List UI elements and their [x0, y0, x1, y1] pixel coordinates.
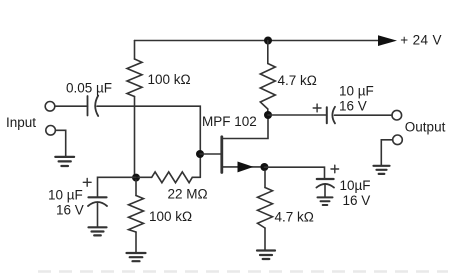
wire C3 to output terminal	[335, 114, 392, 116]
node gate dot	[196, 150, 204, 158]
wire R1 bottom lead down to node X (crosses input wire)	[134, 97, 136, 178]
capacitor C2 plus sign	[83, 178, 91, 186]
capacitor C3 plus sign	[313, 104, 321, 112]
capacitor C3 10uF straight plate	[326, 107, 328, 123]
output lower terminal circle	[393, 135, 403, 145]
wire C2 to ground	[97, 203, 99, 227]
resistor R1 100k zigzag	[127, 59, 142, 97]
ground C4	[318, 197, 333, 205]
resistor R1 100k top lead upper	[134, 41, 136, 60]
svg-text:10 µF: 10 µF	[339, 83, 374, 98]
capacitor C4 10uF curved plate	[316, 184, 334, 188]
svg-text:Input: Input	[6, 115, 36, 130]
capacitor C1 0.05uF left plate	[87, 96, 89, 116]
wire drain node to C3	[268, 114, 327, 116]
resistor R5 4.7k bottom lead upper	[264, 171, 266, 188]
svg-text:4.7 kΩ: 4.7 kΩ	[278, 73, 317, 88]
wire output lower terminal to ground	[381, 140, 392, 165]
svg-text:10µF: 10µF	[340, 178, 371, 193]
ground output	[374, 166, 390, 174]
node source dot	[260, 163, 268, 171]
transistor Q1 MPF102 channel bar	[220, 137, 223, 173]
node X junction dot	[132, 174, 140, 182]
+24V arrowhead	[378, 35, 397, 46]
resistor R3 22M zigzag	[152, 172, 193, 183]
svg-text:100 kΩ: 100 kΩ	[149, 209, 192, 224]
wire source node to C4	[264, 167, 324, 178]
ground input	[55, 157, 74, 166]
wire drain lead	[222, 115, 268, 139]
capacitor C1 0.05uF curved plate	[95, 96, 98, 117]
svg-text:+ 24 V: + 24 V	[400, 32, 442, 47]
svg-text:16 V: 16 V	[56, 203, 84, 218]
resistor R4 4.7k zigzag	[260, 64, 275, 110]
svg-text:4.7 kΩ: 4.7 kΩ	[275, 209, 314, 224]
output terminal circle	[392, 110, 402, 120]
ground C2	[89, 227, 107, 235]
node rail junction dot	[264, 37, 272, 45]
resistor R2 100k zigzag	[129, 196, 144, 233]
capacitor C4 10uF straight plate	[317, 178, 334, 180]
wire R5 to ground	[264, 228, 266, 250]
resistor R4 4.7k top lead upper	[267, 41, 269, 64]
svg-text:10 µF: 10 µF	[48, 187, 83, 202]
svg-text:100 kΩ: 100 kΩ	[148, 72, 191, 87]
svg-text:Output: Output	[405, 119, 446, 134]
capacitor C3 10uF curved plate	[332, 107, 335, 124]
resistor R5 4.7k zigzag	[258, 188, 273, 229]
input lower terminal circle	[46, 126, 56, 136]
wire C1 to gate feed corner	[97, 106, 200, 177]
wire node X to C2	[98, 177, 137, 197]
node drain dot	[264, 111, 272, 119]
transistor Q1 source arrow	[238, 162, 254, 173]
wire R2 to ground	[135, 232, 137, 252]
capacitor C4 plus sign	[331, 165, 339, 173]
capacitor C2 10uF straight plate	[89, 196, 107, 198]
resistor R2 100k bottom lead upper	[135, 180, 137, 196]
scan noise band at page bottom	[38, 270, 448, 273]
resistor R3 22M left lead	[138, 176, 152, 178]
wire top supply rail	[135, 40, 382, 42]
svg-text:MPF 102: MPF 102	[202, 114, 257, 129]
svg-text:0.05 µF: 0.05 µF	[66, 81, 112, 96]
wire R4 to drain node	[267, 109, 269, 115]
svg-text:22 MΩ: 22 MΩ	[168, 186, 208, 201]
ground R2	[127, 253, 146, 261]
wire lower terminal to ground	[55, 130, 65, 156]
wire gate lead	[200, 153, 221, 155]
wire R3 right lead to gate feed line	[192, 176, 200, 178]
input terminal circle	[45, 102, 55, 112]
capacitor C2 10uF curved plate	[88, 202, 107, 206]
wire C4 to ground	[324, 184, 326, 197]
svg-text:16 V: 16 V	[343, 193, 371, 208]
wire input to C1	[55, 105, 88, 107]
ground R5	[257, 251, 275, 260]
wire source lead	[222, 166, 264, 168]
svg-text:16 V: 16 V	[339, 99, 367, 114]
